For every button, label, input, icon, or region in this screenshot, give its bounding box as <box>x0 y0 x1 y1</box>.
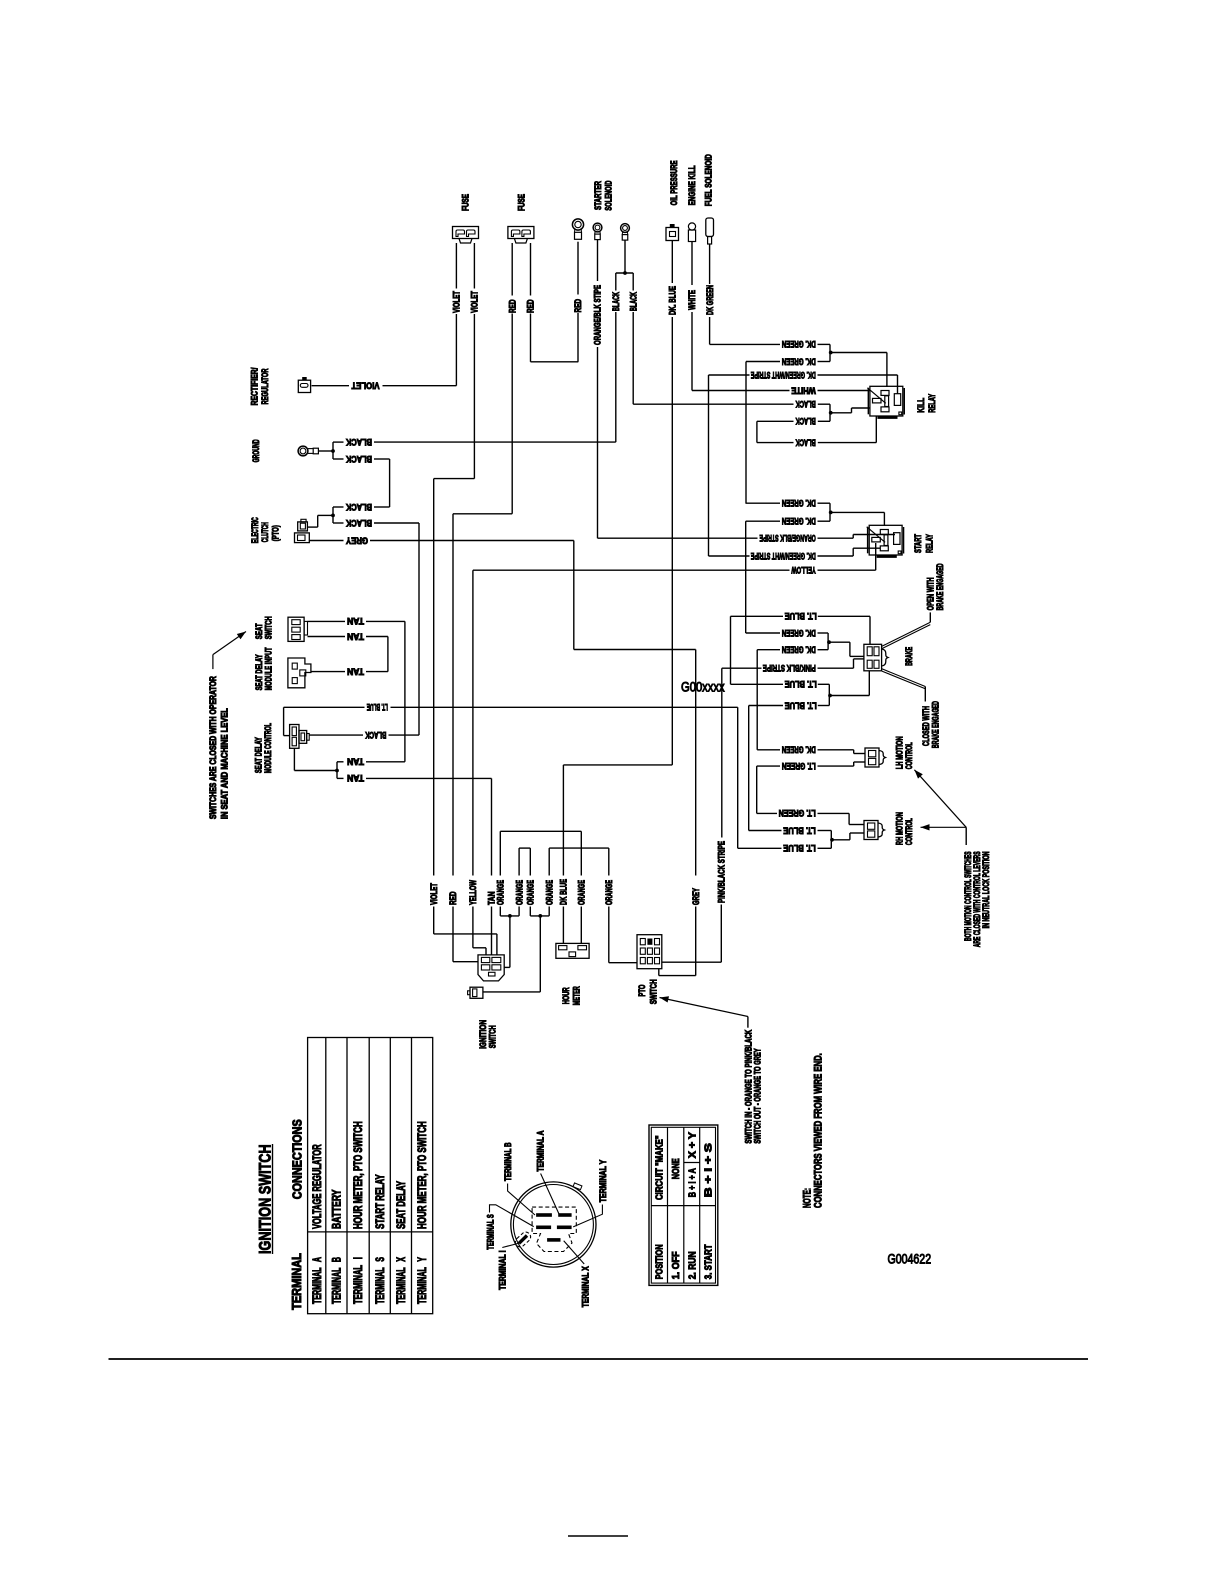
svg-text:DK GREEN: DK GREEN <box>705 285 715 315</box>
svg-text:LT. BLUE: LT. BLUE <box>783 825 816 835</box>
svg-text:DK. GREEN: DK. GREEN <box>782 339 816 349</box>
svg-text:G004622: G004622 <box>888 1252 932 1267</box>
svg-text:GROUND: GROUND <box>251 439 261 462</box>
svg-text:LH MOTION: LH MOTION <box>894 736 904 769</box>
svg-text:ORANGE/BLK STIPE: ORANGE/BLK STIPE <box>593 285 603 345</box>
svg-text:2. RUN: 2. RUN <box>686 1251 698 1279</box>
svg-text:G00xxxx: G00xxxx <box>681 680 725 695</box>
svg-text:VIOLET: VIOLET <box>351 381 379 391</box>
svg-text:BLACK: BLACK <box>346 518 372 528</box>
svg-text:OPEN WITH: OPEN WITH <box>926 577 936 610</box>
svg-text:FUSE: FUSE <box>461 194 471 211</box>
svg-text:LT. BLUE: LT. BLUE <box>367 702 388 712</box>
svg-text:IN NEUTRAL LOCK POSITION: IN NEUTRAL LOCK POSITION <box>981 851 991 928</box>
svg-text:ORANGE/BLK STRIPE: ORANGE/BLK STRIPE <box>760 533 816 543</box>
svg-text:SWITCH: SWITCH <box>264 616 274 639</box>
svg-text:BATTERY: BATTERY <box>332 1189 344 1229</box>
svg-text:SOLENOID: SOLENOID <box>603 180 613 210</box>
svg-text:SWITCH: SWITCH <box>488 1025 498 1048</box>
svg-text:RED: RED <box>526 299 536 313</box>
svg-text:DK. GREEN: DK. GREEN <box>782 516 816 526</box>
svg-text:BLACK: BLACK <box>628 292 638 311</box>
svg-text:POSITION: POSITION <box>653 1244 665 1279</box>
svg-text:DK. GREEN: DK. GREEN <box>782 356 816 366</box>
svg-text:ORANGE: ORANGE <box>544 880 554 905</box>
svg-text:(PTO): (PTO) <box>271 525 281 541</box>
svg-text:CONNECTIONS: CONNECTIONS <box>291 1119 305 1199</box>
svg-text:CIRCUIT "MAKE": CIRCUIT "MAKE" <box>653 1135 665 1200</box>
svg-text:VIOLET: VIOLET <box>429 883 439 905</box>
svg-text:TERMINAL: TERMINAL <box>290 1253 304 1310</box>
svg-text:TAN: TAN <box>347 773 364 783</box>
svg-text:PINK/BLACK STRIPE: PINK/BLACK STRIPE <box>717 841 727 903</box>
svg-text:HOUR METER, PTO SWITCH: HOUR METER, PTO SWITCH <box>417 1121 429 1229</box>
svg-text:PTO: PTO <box>637 985 647 997</box>
svg-text:WHITE: WHITE <box>687 290 697 310</box>
svg-text:START RELAY: START RELAY <box>375 1174 387 1229</box>
svg-text:YELLOW: YELLOW <box>468 880 478 905</box>
svg-text:BRAKE: BRAKE <box>904 647 914 666</box>
svg-text:START: START <box>913 534 923 553</box>
svg-text:NONE: NONE <box>670 1158 682 1179</box>
svg-text:DK BLUE: DK BLUE <box>559 879 569 905</box>
svg-text:VOLTAGE REGULATOR: VOLTAGE REGULATOR <box>312 1144 324 1229</box>
svg-text:BLACK: BLACK <box>795 399 816 409</box>
svg-text:B + I + A: B + I + A <box>686 1168 698 1197</box>
svg-text:KILL: KILL <box>916 397 926 412</box>
svg-text:DK. BLUE: DK. BLUE <box>668 286 678 315</box>
svg-text:TERMINAL S: TERMINAL S <box>375 1257 387 1304</box>
svg-text:IN SEAT AND MACHINE LEVEL: IN SEAT AND MACHINE LEVEL <box>220 708 230 819</box>
svg-text:RELAY: RELAY <box>927 394 937 413</box>
svg-text:RED: RED <box>507 299 517 313</box>
svg-text:IGNITION SWITCH: IGNITION SWITCH <box>255 1144 274 1254</box>
svg-text:RECTIFIER/: RECTIFIER/ <box>250 367 260 405</box>
svg-text:TERMINAL X: TERMINAL X <box>396 1257 408 1304</box>
svg-text:BLACK: BLACK <box>611 292 621 311</box>
svg-text:RED: RED <box>448 891 458 905</box>
svg-text:VIOLET: VIOLET <box>470 291 480 313</box>
svg-text:BLACK: BLACK <box>365 730 387 740</box>
svg-text:PINK/BLK STRIPE: PINK/BLK STRIPE <box>763 663 816 673</box>
svg-text:MODULE CONTROL: MODULE CONTROL <box>263 723 273 773</box>
svg-text:FUSE: FUSE <box>517 194 527 211</box>
svg-text:TERMINAL A: TERMINAL A <box>312 1257 324 1304</box>
svg-text:LT. BLUE: LT. BLUE <box>785 679 817 689</box>
svg-text:SEAT DELAY: SEAT DELAY <box>253 737 263 773</box>
svg-text:RELAY: RELAY <box>925 534 935 553</box>
svg-text:BLACK: BLACK <box>795 437 816 447</box>
svg-text:BRAKE ENGAGED: BRAKE ENGAGED <box>935 563 945 610</box>
svg-text:TERMINAL I: TERMINAL I <box>353 1257 365 1304</box>
svg-text:TERMINAL I: TERMINAL I <box>498 1251 508 1291</box>
svg-text:1. OFF: 1. OFF <box>670 1251 682 1279</box>
svg-text:BRAKE ENGAGED: BRAKE ENGAGED <box>930 701 940 748</box>
svg-text:SWITCH: SWITCH <box>649 979 659 1004</box>
svg-text:DK. GREEN: DK. GREEN <box>782 745 816 755</box>
svg-text:B + I + S: B + I + S <box>702 1143 714 1197</box>
svg-text:CONTROL: CONTROL <box>904 818 914 845</box>
svg-text:TERMINAL Y: TERMINAL Y <box>598 1160 608 1203</box>
svg-text:ORANGE: ORANGE <box>526 880 536 905</box>
svg-text:LT. BLUE: LT. BLUE <box>785 611 817 621</box>
svg-text:HOUR: HOUR <box>561 987 571 1004</box>
svg-text:TERMINAL Y: TERMINAL Y <box>417 1257 429 1304</box>
svg-text:DK. GREEN/WHT STRIPE: DK. GREEN/WHT STRIPE <box>751 370 816 380</box>
svg-text:TERMINAL S: TERMINAL S <box>486 1214 496 1250</box>
svg-text:LT. BLUE: LT. BLUE <box>783 843 816 853</box>
svg-text:ORANGE: ORANGE <box>514 880 524 905</box>
svg-text:3. START: 3. START <box>702 1244 714 1279</box>
svg-text:CONTROL: CONTROL <box>904 742 914 769</box>
svg-text:TERMINAL X: TERMINAL X <box>581 1266 591 1307</box>
svg-text:GREY: GREY <box>346 535 368 545</box>
svg-text:MODULE INPUT: MODULE INPUT <box>263 647 273 690</box>
svg-text:SEAT DELAY: SEAT DELAY <box>396 1181 408 1229</box>
svg-text:TAN: TAN <box>347 631 364 641</box>
svg-text:BLACK: BLACK <box>346 454 372 464</box>
svg-text:HOUR METER, PTO SWITCH: HOUR METER, PTO SWITCH <box>353 1121 365 1229</box>
svg-text:ORANGE: ORANGE <box>496 880 506 905</box>
svg-text:LT. GREEN: LT. GREEN <box>782 761 816 771</box>
svg-text:GREY: GREY <box>691 888 701 905</box>
svg-text:BLACK: BLACK <box>346 437 372 447</box>
svg-text:ENGINE KILL: ENGINE KILL <box>687 165 697 205</box>
svg-text:METER: METER <box>572 986 582 1005</box>
svg-text:SWITCHES ARE CLOSED WITH OPERA: SWITCHES ARE CLOSED WITH OPERATOR <box>208 676 218 819</box>
svg-text:ELECTRIC: ELECTRIC <box>250 517 260 543</box>
svg-text:RED: RED <box>573 299 583 313</box>
svg-text:ORANGE: ORANGE <box>604 880 614 905</box>
svg-text:DK. GREEN: DK. GREEN <box>782 645 816 655</box>
svg-text:TERMINAL A: TERMINAL A <box>536 1130 546 1171</box>
svg-text:LT. BLUE: LT. BLUE <box>785 700 817 710</box>
svg-text:TERMINAL B: TERMINAL B <box>332 1257 344 1304</box>
svg-text:SWITCH OUT - ORANGE TO GREY: SWITCH OUT - ORANGE TO GREY <box>752 1048 762 1143</box>
svg-text:BLACK: BLACK <box>795 416 816 426</box>
svg-text:BLACK: BLACK <box>346 502 372 512</box>
svg-text:TERMINAL B: TERMINAL B <box>503 1142 513 1181</box>
svg-text:ORANGE: ORANGE <box>577 880 587 905</box>
svg-text:STARTER: STARTER <box>593 181 603 210</box>
svg-text:CLUTCH: CLUTCH <box>260 522 270 542</box>
svg-text:OIL PRESSURE: OIL PRESSURE <box>669 160 679 205</box>
svg-text:RH MOTION: RH MOTION <box>894 812 904 845</box>
svg-text:VIOLET: VIOLET <box>452 291 462 313</box>
svg-text:TAN: TAN <box>347 616 364 626</box>
svg-text:WHITE: WHITE <box>791 385 816 395</box>
svg-text:TAN: TAN <box>347 757 364 767</box>
svg-text:LT. GREEN: LT. GREEN <box>779 808 816 818</box>
svg-text:CONNECTORS VIEWED FROM WIRE EN: CONNECTORS VIEWED FROM WIRE END. <box>813 1053 825 1208</box>
svg-text:YELLOW: YELLOW <box>791 565 816 575</box>
svg-text:DK. GREEN: DK. GREEN <box>782 498 816 508</box>
svg-text:FUEL SOLENOID: FUEL SOLENOID <box>704 154 714 206</box>
svg-text:TAN: TAN <box>347 666 364 676</box>
svg-text:DK. GREEN: DK. GREEN <box>782 628 816 638</box>
svg-text:X + Y: X + Y <box>686 1132 698 1158</box>
svg-text:REGULATOR: REGULATOR <box>260 368 270 404</box>
svg-text:DK. GREEN/WHT STRIPE: DK. GREEN/WHT STRIPE <box>751 551 816 561</box>
